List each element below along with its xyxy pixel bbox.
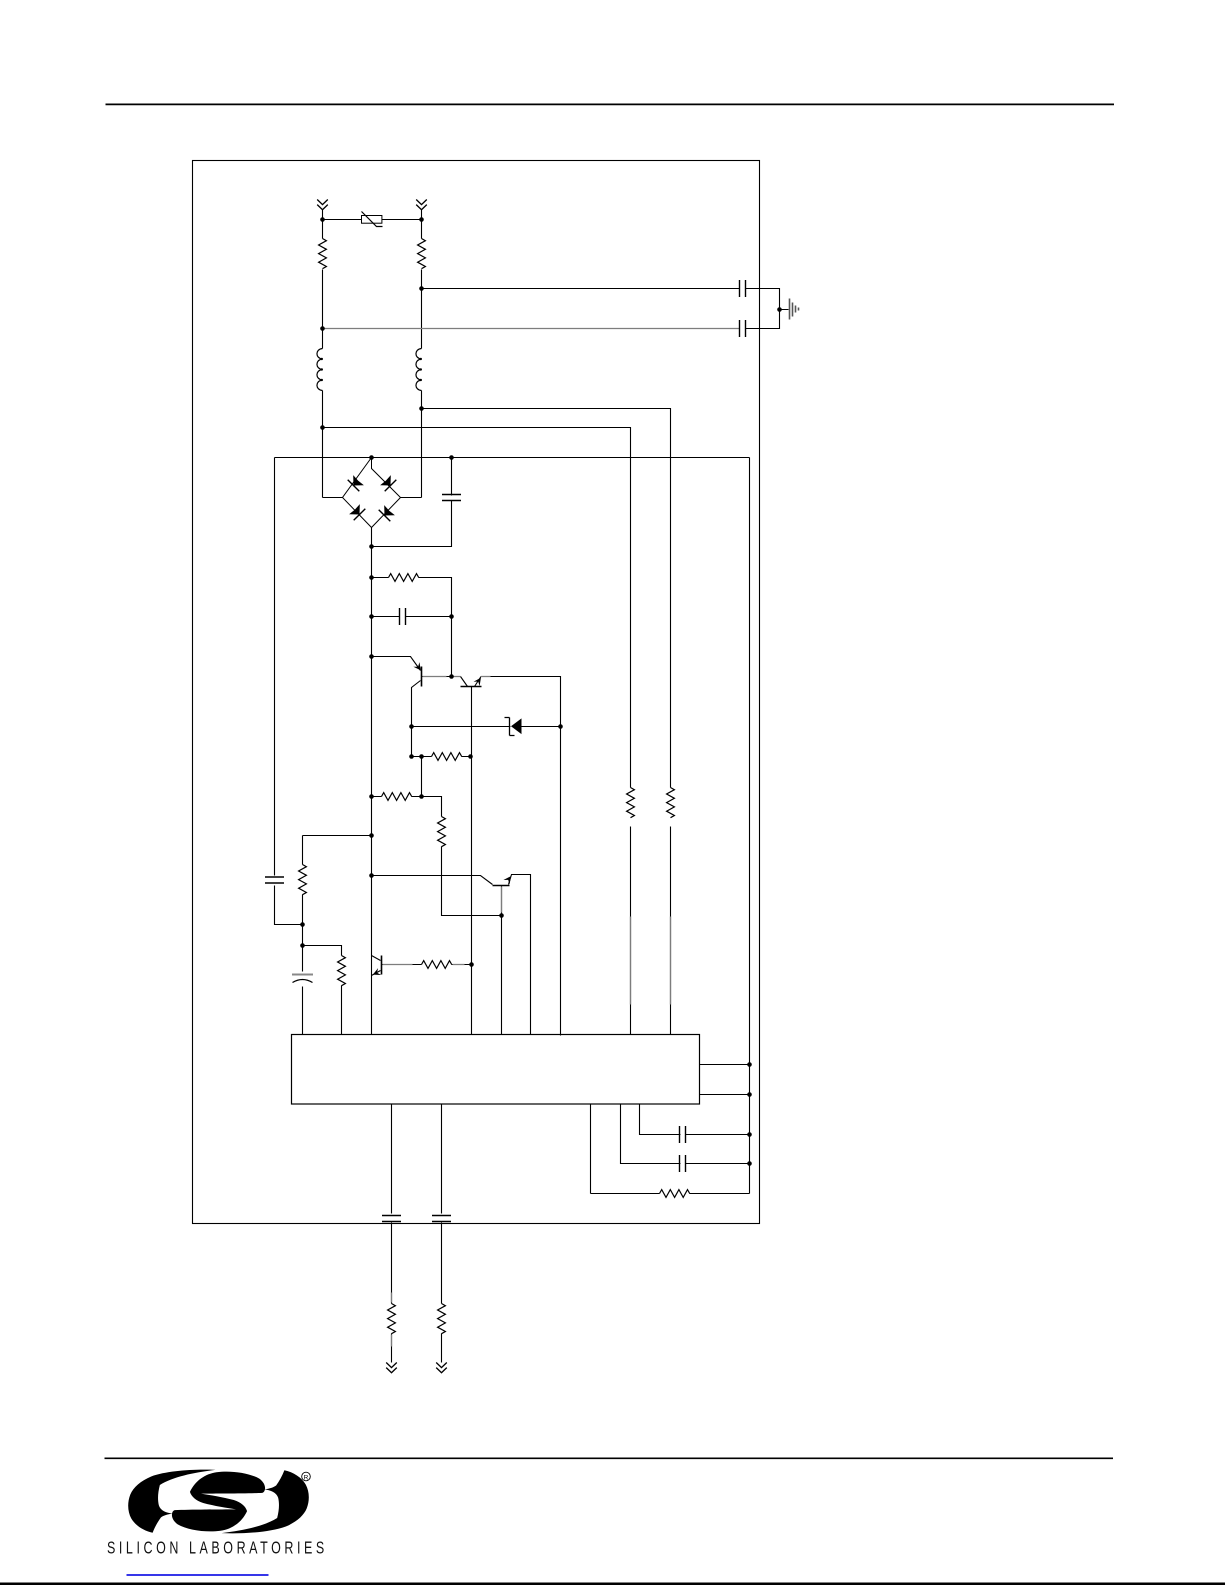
svg-text:SILICON LABORATORIES: SILICON LABORATORIES — [107, 1539, 328, 1558]
svg-text:R: R — [304, 1474, 309, 1481]
